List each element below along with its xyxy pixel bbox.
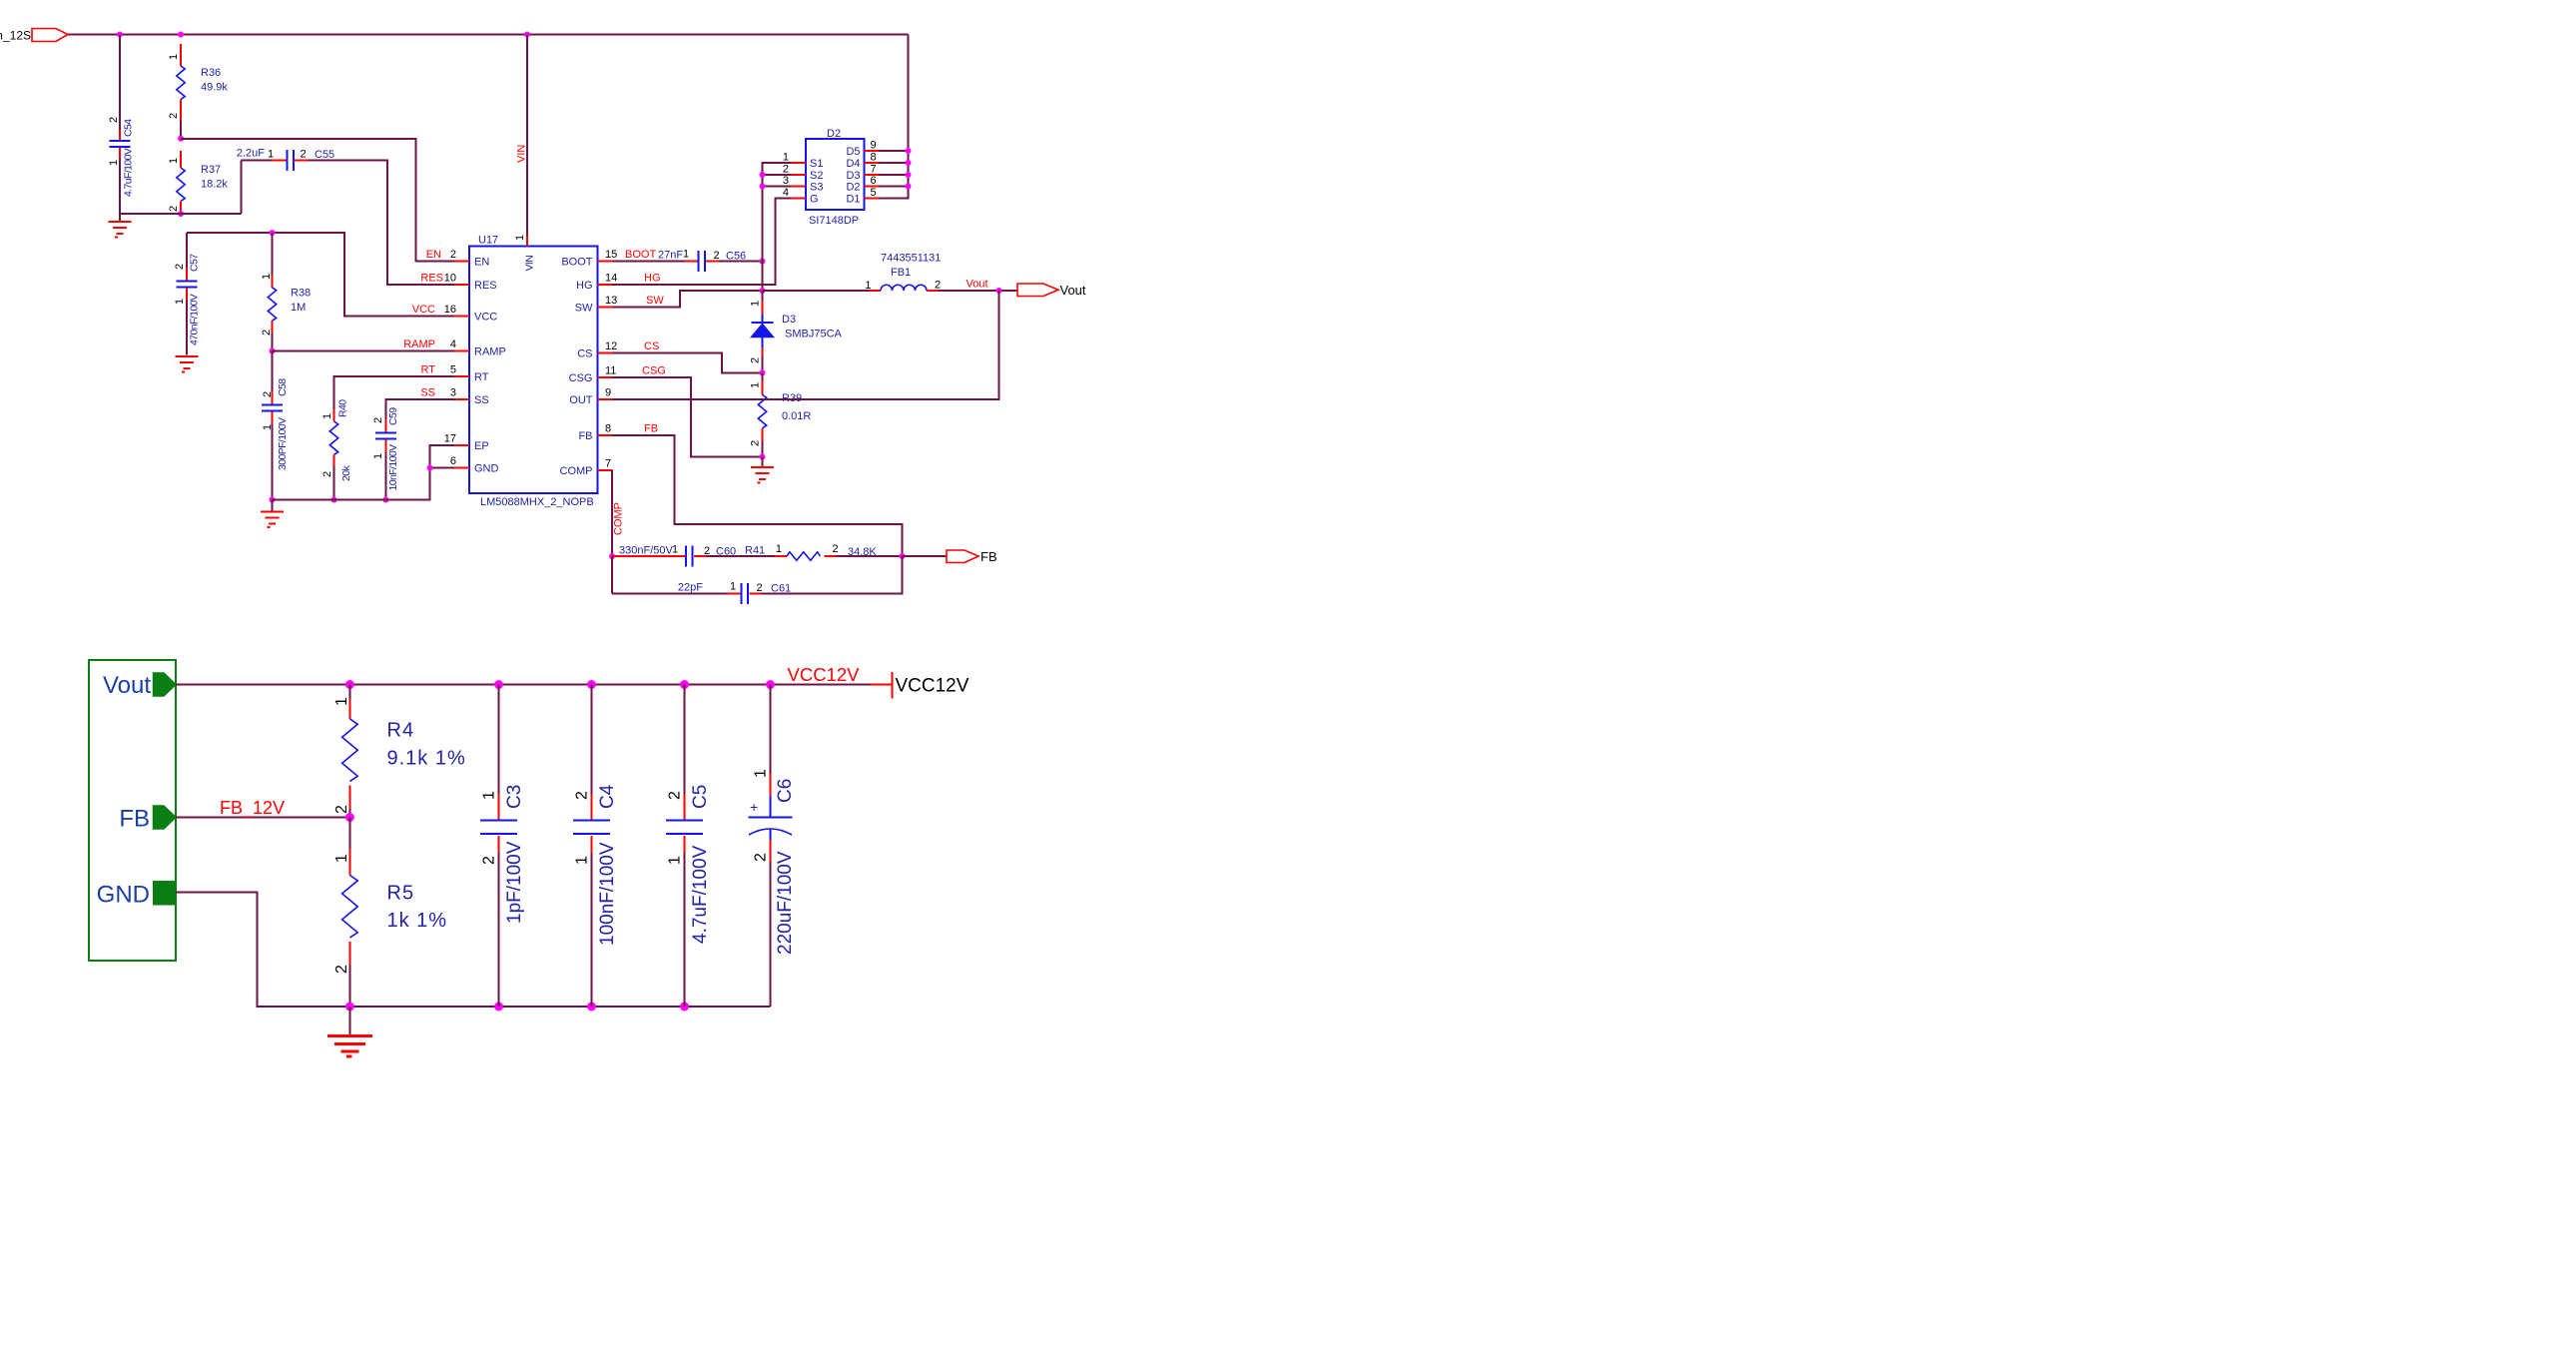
- net label FB at pin 8: [644, 423, 658, 435]
- svg-text:VCC: VCC: [412, 304, 435, 316]
- svg-text:2: 2: [450, 249, 456, 261]
- svg-text:1: 1: [108, 160, 120, 166]
- svg-text:HG: HG: [644, 273, 661, 285]
- svg-text:8: 8: [871, 152, 877, 164]
- svg-text:2: 2: [372, 417, 384, 423]
- svg-text:SI7148DP: SI7148DP: [809, 215, 859, 227]
- svg-text:17: 17: [444, 433, 456, 445]
- svg-text:2: 2: [753, 853, 770, 862]
- svg-text:SS: SS: [420, 387, 435, 399]
- svg-text:9: 9: [871, 140, 877, 152]
- svg-text:C56: C56: [726, 251, 746, 263]
- junction C58 bottom rail: [270, 497, 276, 503]
- junction gnd C4: [587, 1003, 596, 1012]
- junction D3 drain: [906, 172, 912, 178]
- svg-text:1: 1: [174, 299, 186, 305]
- capacitor C58 300PF/100V: [262, 351, 289, 500]
- net label RES: [420, 273, 443, 285]
- capacitor C4 100nF/100V: [573, 685, 618, 1008]
- wire VIN drop to U17 pin1: [526, 35, 528, 237]
- capacitor C57 470nF/100V: [174, 233, 201, 355]
- sheet pin Vout: [103, 672, 176, 699]
- port FB: [947, 549, 997, 564]
- svg-text:R37: R37: [201, 164, 221, 176]
- svg-text:5: 5: [450, 364, 456, 376]
- junction R36/R37 EN node: [178, 136, 184, 142]
- svg-text:1: 1: [574, 856, 591, 865]
- svg-text:27nF: 27nF: [658, 250, 683, 262]
- svg-text:EN: EN: [426, 249, 441, 261]
- junction gnd C5: [680, 1003, 689, 1012]
- svg-text:330nF/50V: 330nF/50V: [619, 545, 673, 557]
- svg-text:2: 2: [704, 545, 710, 557]
- svg-text:1: 1: [168, 54, 180, 60]
- junction rail C5: [680, 680, 689, 689]
- svg-text:3: 3: [450, 387, 456, 399]
- junction R40 bottom rail: [331, 497, 337, 503]
- wire FB_12V net: [176, 817, 349, 819]
- junction R38/RAMP: [270, 348, 276, 354]
- svg-text:2: 2: [750, 357, 762, 363]
- svg-text:13: 13: [605, 295, 617, 307]
- svg-text:1: 1: [481, 791, 498, 800]
- svg-text:2: 2: [262, 391, 274, 397]
- svg-text:4.7uF/100V: 4.7uF/100V: [690, 845, 711, 944]
- svg-text:0.01R: 0.01R: [782, 410, 811, 422]
- svg-text:2: 2: [750, 440, 762, 446]
- wire D2 drains to VIN rail: [880, 35, 909, 199]
- svg-text:RAMP: RAMP: [474, 345, 506, 357]
- svg-text:1: 1: [753, 769, 770, 778]
- resistor R36 49.9k: [168, 44, 228, 139]
- sheet symbol: [89, 660, 176, 961]
- svg-text:20k: 20k: [340, 465, 352, 481]
- svg-text:RES: RES: [474, 280, 497, 292]
- net label VIN: [516, 145, 528, 163]
- svg-text:FB: FB: [119, 806, 150, 833]
- svg-text:300PF/100V: 300PF/100V: [277, 417, 289, 470]
- svg-text:EP: EP: [474, 440, 489, 452]
- wire EN net: [181, 139, 454, 262]
- svg-text:G: G: [810, 193, 819, 205]
- svg-text:16: 16: [444, 304, 456, 316]
- svg-text:COMP: COMP: [560, 465, 593, 477]
- svg-text:VCC12V: VCC12V: [788, 664, 861, 685]
- svg-text:1: 1: [783, 152, 789, 164]
- svg-text:Vout: Vout: [1060, 283, 1086, 298]
- junction D5 drain: [906, 148, 912, 154]
- capacitor C60 330nF/50V: [612, 544, 775, 567]
- svg-text:R40: R40: [337, 399, 349, 417]
- resistor R38 1M: [261, 233, 311, 351]
- ground at R5: [327, 1007, 372, 1056]
- svg-text:RT: RT: [474, 371, 489, 383]
- svg-text:3: 3: [783, 175, 789, 187]
- svg-text:D3: D3: [846, 170, 860, 182]
- wire bottom GND rail: [349, 1006, 770, 1008]
- svg-text:2: 2: [261, 330, 273, 336]
- net label CS: [644, 340, 659, 352]
- power symbol VCC12V: [893, 672, 969, 699]
- svg-text:22pF: 22pF: [678, 582, 703, 594]
- svg-text:CSG: CSG: [569, 372, 593, 384]
- net label COMP: [613, 502, 625, 535]
- junction rail R4: [345, 680, 354, 689]
- svg-text:FB: FB: [644, 423, 658, 435]
- svg-text:U17: U17: [478, 235, 498, 247]
- net label SW: [646, 295, 664, 307]
- wire VIN_12S top rail: [68, 34, 909, 36]
- svg-text:2: 2: [574, 791, 591, 800]
- resistor R37 18.2k: [168, 151, 228, 214]
- junction C54/R37 bottom: [178, 211, 184, 217]
- wire to FB port: [903, 555, 948, 557]
- wire OUT net: [613, 291, 999, 399]
- svg-text:n_12S: n_12S: [0, 29, 31, 43]
- svg-text:D2: D2: [846, 181, 860, 193]
- svg-text:2: 2: [301, 149, 307, 161]
- svg-text:COMP: COMP: [613, 502, 625, 535]
- svg-text:VIN: VIN: [524, 256, 536, 272]
- wire D2 sources to S-line: [763, 163, 792, 291]
- svg-text:2: 2: [333, 965, 350, 974]
- svg-text:D1: D1: [846, 193, 860, 205]
- junction CSG / R39 bottom: [760, 454, 766, 460]
- svg-text:7: 7: [871, 164, 877, 176]
- junction Vout / OUT: [996, 288, 1002, 294]
- port n_12S (off-sheet connector): [0, 29, 68, 43]
- svg-text:2: 2: [833, 543, 839, 555]
- svg-text:9: 9: [605, 387, 611, 399]
- capacitor C6 220uF/100V: [749, 685, 797, 1008]
- svg-text:C57: C57: [189, 254, 201, 272]
- svg-text:R38: R38: [291, 288, 311, 300]
- svg-text:2: 2: [333, 805, 350, 814]
- wire COMP net: [598, 470, 613, 556]
- svg-text:49.9k: 49.9k: [201, 82, 228, 94]
- wire SS net: [386, 399, 455, 419]
- net label HG: [644, 273, 661, 285]
- svg-text:C5: C5: [690, 785, 711, 809]
- net label RT: [421, 364, 436, 376]
- svg-text:BOOT: BOOT: [625, 249, 656, 261]
- wire CSG net: [613, 377, 763, 457]
- svg-text:1: 1: [865, 280, 871, 292]
- svg-text:VCC12V: VCC12V: [896, 676, 969, 697]
- svg-text:1: 1: [730, 581, 736, 593]
- svg-text:SMBJ75CA: SMBJ75CA: [785, 329, 843, 340]
- junction R41 / FB port: [900, 553, 906, 559]
- svg-text:C55: C55: [315, 149, 334, 161]
- svg-text:1: 1: [333, 697, 350, 706]
- wire FB net from pin 8: [613, 435, 903, 556]
- resistor R40 20k: [322, 399, 352, 500]
- transistor D2 SI7148DP: [783, 128, 880, 227]
- svg-text:2: 2: [714, 250, 720, 262]
- svg-text:VIN: VIN: [516, 145, 528, 163]
- junction top rail / VIN: [524, 32, 530, 38]
- svg-text:R41: R41: [745, 545, 765, 557]
- svg-text:1: 1: [372, 453, 384, 459]
- svg-text:Vout: Vout: [103, 672, 151, 699]
- svg-text:C59: C59: [387, 407, 399, 425]
- capacitor C61 22pF: [612, 556, 903, 604]
- svg-text:1: 1: [168, 158, 180, 164]
- sheet pin FB: [119, 806, 176, 833]
- wire bottom rail to GND/EP pins: [273, 445, 455, 500]
- capacitor C5 4.7uF/100V: [666, 685, 711, 1008]
- junction top rail / R36: [178, 32, 184, 38]
- svg-text:R36: R36: [201, 67, 221, 79]
- svg-text:1: 1: [333, 854, 350, 863]
- svg-text:SW: SW: [575, 302, 593, 314]
- svg-text:8: 8: [605, 423, 611, 435]
- svg-text:1: 1: [750, 301, 762, 307]
- svg-text:1: 1: [776, 543, 782, 555]
- svg-text:5: 5: [871, 187, 877, 199]
- svg-text:VCC: VCC: [474, 311, 497, 323]
- wire GND from sheet: [176, 893, 349, 1008]
- svg-text:10nF/100V: 10nF/100V: [387, 444, 399, 491]
- svg-text:D4: D4: [846, 158, 860, 170]
- IC U17 LM5088MHX_2_NOPB: [444, 235, 618, 509]
- junction C57/R38: [270, 230, 276, 236]
- ground at C57: [176, 356, 199, 372]
- svg-text:CS: CS: [577, 347, 592, 359]
- svg-text:+: +: [750, 799, 758, 815]
- junction gnd C3: [494, 1003, 503, 1012]
- svg-text:GND: GND: [97, 882, 150, 909]
- svg-text:2: 2: [174, 264, 186, 270]
- svg-text:1: 1: [514, 235, 526, 241]
- svg-text:CS: CS: [644, 340, 659, 352]
- svg-text:1: 1: [672, 544, 678, 556]
- svg-text:C3: C3: [504, 785, 525, 809]
- junction rail C6: [766, 680, 775, 689]
- svg-text:34.8K: 34.8K: [848, 546, 877, 558]
- junction rail C4: [587, 680, 596, 689]
- net label FB_12V: [220, 798, 285, 819]
- junction S3: [760, 184, 766, 190]
- sheet pin GND: [97, 882, 176, 909]
- svg-text:C58: C58: [277, 378, 289, 396]
- svg-text:SS: SS: [474, 394, 489, 406]
- wire C57-R38-VCC net: [187, 233, 454, 317]
- wire CS net: [613, 353, 763, 373]
- svg-text:2: 2: [322, 471, 333, 477]
- ground at R39: [751, 457, 774, 483]
- wire VCC12V rail: [176, 684, 893, 686]
- svg-text:14: 14: [605, 273, 617, 285]
- net label VCC: [412, 304, 435, 316]
- svg-text:6: 6: [450, 455, 456, 467]
- svg-text:RAMP: RAMP: [403, 338, 435, 350]
- svg-text:11: 11: [605, 365, 616, 377]
- wire RT net: [334, 376, 455, 409]
- svg-text:C4: C4: [597, 784, 618, 809]
- wire RES net: [309, 161, 455, 286]
- svg-text:RT: RT: [421, 364, 436, 376]
- resistor R39 0.01R: [750, 372, 812, 456]
- svg-text:2: 2: [935, 280, 941, 292]
- junction D2 drain: [906, 184, 912, 190]
- svg-text:6: 6: [871, 175, 877, 187]
- svg-text:7: 7: [605, 458, 611, 470]
- junction S2: [760, 172, 766, 178]
- svg-text:12: 12: [605, 340, 617, 352]
- svg-text:CSG: CSG: [642, 365, 666, 377]
- capacitor C54 4.7uF/100V: [108, 35, 135, 215]
- junction top rail / C54: [117, 32, 123, 38]
- capacitor C56 27nF: [613, 249, 763, 273]
- wire SW net: [613, 291, 763, 308]
- svg-text:2: 2: [108, 117, 120, 123]
- svg-text:D5: D5: [846, 146, 860, 158]
- svg-text:S1: S1: [810, 158, 823, 170]
- wire C54-R37-C55 bottom link: [120, 161, 242, 215]
- svg-text:2: 2: [783, 164, 789, 176]
- diode D3 SMBJ75CA: [750, 291, 843, 372]
- net label RAMP: [403, 338, 435, 350]
- junction C59 bottom rail: [383, 497, 389, 503]
- svg-text:SW: SW: [646, 295, 664, 307]
- svg-text:D3: D3: [782, 314, 796, 326]
- svg-text:4: 4: [783, 187, 789, 199]
- svg-text:1k 1%: 1k 1%: [387, 910, 448, 932]
- junction CS / R39 top: [760, 369, 766, 375]
- junction rail C3: [494, 680, 503, 689]
- svg-text:BOOT: BOOT: [561, 256, 592, 268]
- svg-text:2: 2: [757, 582, 763, 594]
- svg-text:1M: 1M: [291, 302, 306, 314]
- resistor R41 34.8K: [745, 543, 903, 560]
- svg-text:7443551131: 7443551131: [881, 253, 941, 265]
- svg-text:1: 1: [750, 382, 762, 388]
- svg-text:EN: EN: [474, 256, 489, 268]
- svg-text:C54: C54: [123, 119, 135, 137]
- junction SW / Vout rail: [760, 288, 766, 294]
- svg-text:2: 2: [168, 113, 180, 119]
- junction gnd R5: [345, 1003, 354, 1012]
- junction C56 / S-line: [760, 259, 766, 265]
- svg-text:RES: RES: [420, 273, 443, 285]
- capacitor C59 10nF/100V: [372, 407, 399, 500]
- svg-text:470nF/100V: 470nF/100V: [189, 294, 201, 345]
- svg-text:1: 1: [268, 149, 274, 161]
- resistor R5 1k 1%: [333, 818, 447, 1008]
- svg-text:4: 4: [450, 338, 456, 350]
- svg-text:FB_12V: FB_12V: [220, 798, 285, 819]
- svg-text:OUT: OUT: [569, 394, 593, 406]
- port Vout: [1017, 283, 1086, 298]
- svg-text:HG: HG: [576, 280, 593, 292]
- svg-text:R4: R4: [387, 720, 415, 742]
- svg-text:2: 2: [667, 791, 684, 800]
- svg-text:18.2k: 18.2k: [201, 179, 228, 191]
- svg-text:1: 1: [683, 249, 689, 261]
- svg-text:2: 2: [481, 856, 498, 865]
- svg-text:1: 1: [322, 413, 333, 419]
- svg-text:S3: S3: [810, 181, 823, 193]
- inductor FB1 7443551131: [763, 253, 1018, 293]
- svg-text:1: 1: [262, 424, 274, 430]
- svg-text:C61: C61: [771, 583, 791, 595]
- svg-text:R5: R5: [387, 883, 415, 905]
- capacitor C3 1pF/100V: [480, 685, 525, 1008]
- svg-text:9.1k 1%: 9.1k 1%: [387, 748, 466, 770]
- svg-text:4.7uF/100V: 4.7uF/100V: [123, 148, 135, 197]
- svg-text:GND: GND: [474, 462, 499, 474]
- net label EN: [426, 249, 441, 261]
- net label VCC12V: [788, 664, 861, 685]
- svg-text:LM5088MHX_2_NOPB: LM5088MHX_2_NOPB: [480, 496, 594, 508]
- svg-text:1: 1: [261, 274, 273, 280]
- wire HG net (D2 gate): [613, 199, 792, 286]
- junction EP/GND: [427, 465, 433, 471]
- net label SS: [420, 387, 435, 399]
- svg-text:15: 15: [605, 249, 617, 261]
- net label CSG: [642, 365, 666, 377]
- svg-text:Vout: Vout: [966, 279, 988, 291]
- svg-text:100nF/100V: 100nF/100V: [597, 842, 618, 946]
- capacitor C55 2.2uF: [237, 148, 334, 172]
- svg-text:220uF/100V: 220uF/100V: [775, 851, 796, 955]
- junction FB_12V / R4 / R5: [345, 813, 354, 822]
- svg-text:1: 1: [667, 856, 684, 865]
- wire RAMP net: [273, 350, 455, 352]
- svg-text:C6: C6: [775, 779, 796, 803]
- svg-text:FB: FB: [578, 430, 592, 442]
- junction COMP / C60 / C61: [609, 553, 615, 559]
- net label Vout: [966, 279, 988, 291]
- svg-text:2: 2: [168, 206, 180, 212]
- svg-text:10: 10: [444, 273, 456, 285]
- svg-text:FB1: FB1: [891, 267, 911, 279]
- junction D4 drain: [906, 160, 912, 166]
- svg-text:FB: FB: [980, 549, 997, 564]
- svg-text:2.2uF: 2.2uF: [237, 148, 265, 160]
- svg-text:D2: D2: [827, 128, 841, 140]
- svg-text:1pF/100V: 1pF/100V: [504, 841, 525, 924]
- svg-text:S2: S2: [810, 170, 823, 182]
- ground at C54: [109, 214, 132, 238]
- resistor R4 9.1k 1%: [333, 685, 466, 818]
- ground at bottom rail: [261, 500, 284, 528]
- svg-text:C60: C60: [716, 546, 736, 558]
